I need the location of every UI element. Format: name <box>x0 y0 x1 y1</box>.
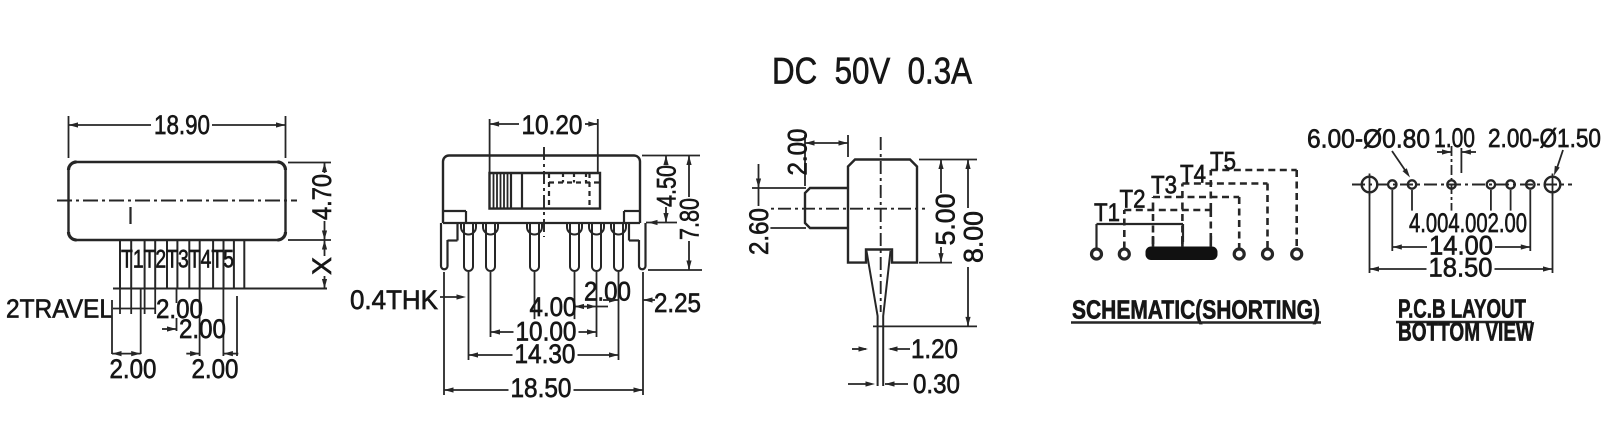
schematic label T4 <box>1180 160 1206 188</box>
svg-text:2.00: 2.00 <box>179 314 226 344</box>
svg-text:18.50: 18.50 <box>511 373 572 403</box>
front view body outline <box>443 156 640 224</box>
top view body outline <box>69 162 286 240</box>
front view slider window <box>490 173 601 209</box>
svg-text:1.20: 1.20 <box>911 334 958 364</box>
svg-text:14.30: 14.30 <box>515 339 576 369</box>
dimension 2.60 <box>744 164 806 257</box>
2travel leader line <box>113 308 155 310</box>
dimension 2.00 front <box>575 277 632 310</box>
label 2.00-O1.50 with leader <box>1488 123 1601 175</box>
svg-text:1.00: 1.00 <box>1434 123 1475 153</box>
svg-text:10.20: 10.20 <box>522 110 583 140</box>
dimension 18.50 pcb <box>1370 253 1553 283</box>
pcb title <box>1396 294 1534 347</box>
top view pin seating plane line <box>113 288 327 290</box>
svg-text:2.00: 2.00 <box>192 354 239 384</box>
label 0.4THK with leader <box>350 285 466 315</box>
svg-text:SCHEMATIC(SHORTING): SCHEMATIC(SHORTING) <box>1072 295 1320 325</box>
svg-text:18.90: 18.90 <box>154 110 210 140</box>
dimension 0.30 <box>848 369 960 399</box>
side view knob <box>805 188 848 228</box>
schematic terminal circles <box>1092 249 1302 259</box>
svg-text:2TRAVEL: 2TRAVEL <box>6 294 113 324</box>
pcb pin holes <box>1388 180 1534 188</box>
side view pin taper <box>867 251 891 386</box>
label 2TRAVEL <box>6 294 113 324</box>
dimension 1.00 <box>1434 123 1476 173</box>
dimension 18.90 extension lines <box>69 116 286 158</box>
svg-text:T5: T5 <box>1210 147 1236 175</box>
schematic label T5 <box>1210 147 1236 175</box>
schematic label T2 <box>1120 185 1146 213</box>
pcb dimension extension lines <box>1370 190 1553 273</box>
front view knob phantom position <box>549 173 600 209</box>
front view knob hatched <box>494 173 523 209</box>
dimension 7.80 <box>648 156 705 271</box>
dimension 2.00 side <box>783 129 848 187</box>
front view terminal pins <box>461 223 626 271</box>
top view lower extension lines <box>112 289 237 356</box>
svg-text:8.00: 8.00 <box>959 211 989 263</box>
svg-text:2.00: 2.00 <box>783 129 813 176</box>
wire T2 dashed <box>1124 210 1211 249</box>
rating label DC 50V 0.3A <box>772 51 972 92</box>
schematic shorting slider bar <box>1146 247 1218 261</box>
front view lower extension lines <box>444 272 643 395</box>
dimension 10.20 extension lines <box>490 119 598 172</box>
dimension 4.00 front <box>530 292 577 325</box>
front view vertical centerline <box>543 147 545 237</box>
dimension 5.00 <box>919 160 977 263</box>
svg-text:2.00: 2.00 <box>110 354 157 384</box>
dimension 2.00 pin pitch b <box>162 314 226 344</box>
dimension 2.00 bottom right <box>186 351 238 384</box>
wire T1 solid <box>1097 224 1184 249</box>
dimension 10.20 <box>490 110 598 140</box>
pcb mounting hole right <box>1545 174 1561 196</box>
schematic label T1 <box>1094 199 1120 227</box>
dimension X <box>307 240 337 289</box>
svg-text:2.60: 2.60 <box>744 208 774 255</box>
dimension 8.00 <box>873 160 989 327</box>
dimension 2.00 bottom left <box>110 351 157 384</box>
svg-text:BOTTOM VIEW: BOTTOM VIEW <box>1398 317 1534 347</box>
side view horizontal centerline <box>754 208 925 210</box>
front view left mounting bracket <box>441 223 458 269</box>
dimension 4.00 4.00 2.00 row <box>1407 208 1529 238</box>
dimension 18.90 <box>69 110 286 140</box>
top view actuator center mark <box>129 207 131 224</box>
dimension 4.70 extension lines <box>288 163 331 241</box>
svg-text:6.00-Ø0.80: 6.00-Ø0.80 <box>1307 124 1430 154</box>
svg-text:2.00-Ø1.50: 2.00-Ø1.50 <box>1488 123 1601 153</box>
svg-text:X: X <box>307 257 337 275</box>
dimension 18.50 front <box>444 373 643 403</box>
svg-text:0.30: 0.30 <box>913 369 960 399</box>
svg-text:T2: T2 <box>1120 185 1146 213</box>
label 6.00-O0.80 with leader <box>1307 124 1430 178</box>
dimension 14.00 <box>1392 231 1530 261</box>
top view terminal pins <box>120 240 244 288</box>
dimension 2.25 <box>603 288 701 318</box>
dimension 4.50 <box>642 156 700 226</box>
schematic title <box>1071 295 1321 325</box>
pcb hole3 vertical centerline <box>1451 146 1453 213</box>
top view horizontal centerline <box>57 200 297 202</box>
dimension 10.00 <box>491 317 597 347</box>
dimension 4.70 <box>307 163 337 241</box>
svg-text:7.80: 7.80 <box>675 198 705 240</box>
svg-text:T1: T1 <box>1094 199 1120 227</box>
dimension 14.30 <box>469 339 619 369</box>
svg-text:18.50: 18.50 <box>1429 253 1493 283</box>
pcb mounting hole left <box>1362 174 1378 196</box>
svg-text:2.25: 2.25 <box>654 288 701 318</box>
front view right mounting bracket <box>629 223 646 269</box>
dimension 1.20 <box>852 334 958 364</box>
svg-text:DC 50V 0.3A: DC 50V 0.3A <box>772 51 972 92</box>
svg-text:4.70: 4.70 <box>307 174 337 220</box>
svg-text:2.00: 2.00 <box>584 277 631 307</box>
dimension 2.00 pin pitch a <box>156 294 203 324</box>
side view body outline <box>848 160 917 263</box>
top view corner marks <box>69 162 286 240</box>
svg-text:T4: T4 <box>1180 160 1206 188</box>
svg-text:T1T2T3T4T5: T1T2T3T4T5 <box>121 245 234 273</box>
schematic label T3 <box>1151 171 1177 199</box>
wire T3 dashed <box>1153 197 1239 249</box>
svg-text:T3: T3 <box>1151 171 1177 199</box>
pcb horizontal centerline <box>1352 184 1572 186</box>
wire T4 dashed <box>1182 184 1267 249</box>
wire T5 dashed <box>1211 170 1297 249</box>
terminal labels T1-T5 <box>121 245 234 273</box>
schematic slider contact ticks <box>1153 236 1211 247</box>
svg-text:5.00: 5.00 <box>931 194 961 246</box>
svg-text:0.4THK: 0.4THK <box>350 285 438 315</box>
side view vertical centerline <box>880 137 882 312</box>
